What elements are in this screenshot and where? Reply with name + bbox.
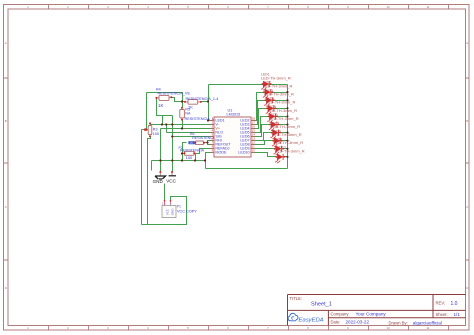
LED LED6 LED-TH-3mm_R xyxy=(269,113,299,131)
svg-text:100: 100 xyxy=(153,132,159,136)
wire U1 pin to LED4 xyxy=(255,109,268,129)
svg-text:LED-TH-3mm_R: LED-TH-3mm_R xyxy=(263,84,293,89)
wire node A to R5 top xyxy=(182,102,184,108)
wire R3 top to U1 V- pin xyxy=(151,124,211,126)
wire cathode return run xyxy=(206,168,288,170)
wire GND riser xyxy=(160,129,162,172)
junction xyxy=(204,159,206,161)
wire LED cathode bus xyxy=(287,85,289,169)
ground GND xyxy=(153,171,166,184)
svg-text:LED-TH-3mm_R: LED-TH-3mm_R xyxy=(270,124,300,129)
svg-text:B: B xyxy=(5,119,7,123)
wire MODE drop xyxy=(206,153,211,169)
svg-text:1/1: 1/1 xyxy=(454,312,461,317)
svg-text:Your Company: Your Company xyxy=(356,312,387,317)
svg-text:A: A xyxy=(5,41,7,45)
svg-text:Sheet:: Sheet: xyxy=(436,312,448,317)
LED LED8 LED-TH-3mm_R xyxy=(272,129,302,147)
wire R3 wiper tail xyxy=(142,129,148,131)
EasyEDA logo xyxy=(288,313,324,323)
wire R5 bottom drop xyxy=(182,120,184,129)
wire wiper drop to bottom loop xyxy=(141,130,143,225)
svg-text:RESISTENCIA_VE: RESISTENCIA_VE xyxy=(158,91,191,95)
junction xyxy=(171,123,173,125)
junction xyxy=(161,123,163,125)
svg-text:VCC: VCC xyxy=(165,208,169,215)
junction xyxy=(181,159,183,161)
svg-text:algarciaofficial: algarciaofficial xyxy=(413,321,442,326)
wire bottom loop to P1 pin 2 xyxy=(142,197,187,225)
wire U1 pin to LED6 xyxy=(255,125,271,137)
wire R4 right to node A xyxy=(172,98,185,102)
wire RLO row xyxy=(167,132,211,134)
svg-text:Sheet_1: Sheet_1 xyxy=(311,302,332,308)
svg-text:LED10: LED10 xyxy=(238,150,249,154)
wire P1 pin 1 riser xyxy=(164,184,166,201)
svg-text:LED-TH-3mm_R: LED-TH-3mm_R xyxy=(269,116,299,121)
svg-text:11: 11 xyxy=(426,5,429,9)
LED LED2 LED-TH-3mm_R xyxy=(263,81,293,99)
junction xyxy=(159,159,161,161)
svg-text:VCC COPY: VCC COPY xyxy=(177,209,197,213)
svg-text:10: 10 xyxy=(386,5,390,9)
svg-text:1.0: 1.0 xyxy=(451,301,458,307)
resistor R1 RESISTENCIA_1-4 xyxy=(184,97,218,110)
LED LED10 LED-TH-3mm_R xyxy=(275,146,305,164)
svg-text:LED-TH-3mm_R: LED-TH-3mm_R xyxy=(273,140,303,145)
resistor P2 xyxy=(179,146,205,160)
LED LED3 LED-TH-3mm_R xyxy=(264,89,294,107)
svg-text:100: 100 xyxy=(186,155,193,160)
wire R1 right to LED1 riser xyxy=(202,101,209,103)
wire U1 pin to LED2 xyxy=(255,93,265,121)
svg-text:RESISTENCIA_1-4: RESISTENCIA_1-4 xyxy=(186,97,219,101)
potentiometer R3 xyxy=(145,122,159,137)
svg-text:NA: NA xyxy=(185,111,191,115)
wire V+ row xyxy=(161,128,211,130)
svg-text:10: 10 xyxy=(386,326,390,330)
U1 pins xyxy=(211,121,255,153)
svg-text:11: 11 xyxy=(426,326,429,330)
junction xyxy=(171,135,173,137)
svg-text:GND: GND xyxy=(153,179,164,184)
svg-text:LED-TH-3mm_R: LED-TH-3mm_R xyxy=(267,108,297,113)
junction xyxy=(145,128,147,130)
resistor R6 with selected value text xyxy=(188,132,205,145)
op-amp/IC U1 LM3915 body xyxy=(214,117,251,157)
wire P2 right to REFADJ xyxy=(195,149,211,154)
svg-text:2022-03-22: 2022-03-22 xyxy=(346,320,370,325)
connector P1 VCC COPY xyxy=(162,200,197,218)
svg-text:LED-TH-3mm_R: LED-TH-3mm_R xyxy=(264,92,294,97)
svg-text:GND: GND xyxy=(170,208,174,216)
svg-text:Company:: Company: xyxy=(331,311,350,316)
junction xyxy=(181,100,183,102)
svg-text:B: B xyxy=(466,119,468,123)
svg-text:REV:: REV: xyxy=(436,300,446,305)
svg-text:1K: 1K xyxy=(158,103,163,108)
svg-text:VCC: VCC xyxy=(166,178,176,183)
junction xyxy=(206,141,208,143)
svg-text:LM3915: LM3915 xyxy=(227,113,241,117)
svg-text:R6: R6 xyxy=(190,132,194,136)
wire R4 left loop xyxy=(157,98,173,116)
svg-text:Drawn By:: Drawn By: xyxy=(389,320,408,325)
wire P2 right drop xyxy=(195,154,197,161)
wire P2 left stub xyxy=(183,153,185,155)
wire V- row to RLO row xyxy=(166,125,168,133)
junction xyxy=(207,119,209,121)
wire LED1 riser to U1 pin 1 xyxy=(209,85,211,121)
wire U1 pin to LED8 xyxy=(255,141,274,145)
wire SIG row xyxy=(173,136,211,138)
LED LED9 LED-TH-3mm_R xyxy=(273,138,303,156)
U1 pin labels xyxy=(215,118,249,154)
junction xyxy=(171,159,173,161)
title block lines xyxy=(288,295,466,326)
junction xyxy=(181,152,183,154)
resistor R4 xyxy=(155,88,190,108)
power VCC xyxy=(166,171,176,183)
wire left vertical to R3 wiper xyxy=(146,93,148,130)
U1 pin numbers xyxy=(212,117,256,153)
wire ground bus left hook xyxy=(151,161,153,171)
svg-text:A: A xyxy=(466,41,468,45)
wire R6 right to REFOUT xyxy=(204,143,211,145)
LED LED7 LED-TH-3mm_R xyxy=(270,121,300,139)
wire U1 pin to LED9 xyxy=(255,148,275,150)
junction xyxy=(181,127,183,129)
resistor R5 xyxy=(180,107,218,121)
svg-text:LED-TH-3mm_R: LED-TH-3mm_R xyxy=(272,132,302,137)
svg-text:EasyEDA: EasyEDA xyxy=(299,317,324,323)
svg-text:MODE: MODE xyxy=(215,150,227,154)
wire U1 pin to LED7 xyxy=(255,133,272,141)
wire U1 pin to LED5 xyxy=(255,117,269,133)
svg-text:RESISTENCIA: RESISTENCIA xyxy=(180,149,205,153)
svg-text:LED-TH-3mm_R: LED-TH-3mm_R xyxy=(261,75,291,80)
wire U1 pin to LED3 xyxy=(255,101,266,125)
LED LED4 LED-TH-3mm_R xyxy=(266,97,296,115)
junction xyxy=(194,159,196,161)
wire R3 bottom drop xyxy=(148,137,151,225)
svg-text:LED-TH-3mm_R: LED-TH-3mm_R xyxy=(275,148,305,153)
wire U1 pin to LED10 xyxy=(255,153,277,157)
wire VCC riser xyxy=(172,116,174,172)
LED LED5 LED-TH-3mm_R xyxy=(267,105,297,123)
svg-text:1 2: 1 2 xyxy=(162,202,166,206)
svg-text:Date:: Date: xyxy=(331,319,341,324)
wire ground bus row xyxy=(152,160,206,162)
LED LED1 LED-TH-3mm_R xyxy=(261,73,291,91)
wire branch to V- row xyxy=(162,116,164,125)
junction xyxy=(207,100,209,102)
junction xyxy=(165,123,167,125)
wire RHI stub xyxy=(208,141,211,143)
wire long top run xyxy=(147,93,183,102)
wire top run to LED1 anode xyxy=(209,84,264,86)
wire R6 left drop xyxy=(183,143,187,161)
svg-text:LED-TH-3mm_R: LED-TH-3mm_R xyxy=(266,100,296,105)
svg-text:TITLE:: TITLE: xyxy=(290,296,303,301)
svg-text:P1: P1 xyxy=(177,204,181,208)
